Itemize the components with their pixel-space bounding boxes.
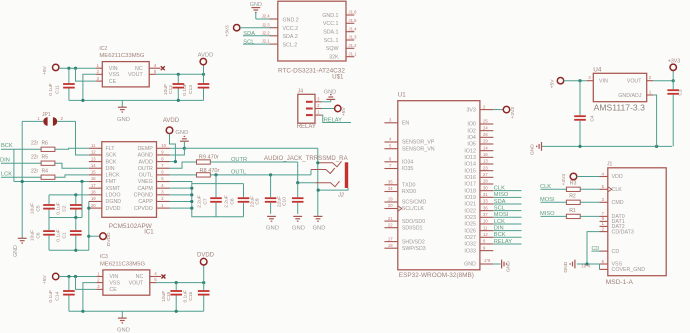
- svg-text:IO22: IO22: [464, 208, 476, 214]
- svg-text:14: 14: [483, 145, 488, 150]
- svg-text:NC: NC: [136, 274, 144, 280]
- svg-text:SENSOR_VN: SENSOR_VN: [402, 146, 435, 152]
- svg-text:LCK: LCK: [1, 172, 12, 178]
- svg-text:J2.3: J2.3: [262, 22, 271, 27]
- svg-text:30: 30: [483, 185, 488, 190]
- svg-text:18: 18: [91, 190, 96, 195]
- svg-text:19: 19: [388, 197, 393, 202]
- svg-text:SHD/SD2: SHD/SD2: [402, 239, 425, 245]
- svg-text:26: 26: [483, 132, 488, 137]
- svg-text:BCK: BCK: [106, 159, 117, 165]
- svg-text:C8: C8: [229, 198, 235, 205]
- svg-text:VNEG: VNEG: [138, 179, 153, 185]
- svg-text:AGND: AGND: [137, 153, 152, 159]
- svg-text:+3V3: +3V3: [510, 107, 516, 119]
- svg-text:+5V: +5V: [42, 65, 48, 75]
- svg-text:OUTL: OUTL: [139, 173, 153, 179]
- svg-text:SCL: SCL: [494, 206, 505, 212]
- svg-text:DVDD: DVDD: [106, 206, 121, 212]
- svg-text:CLK: CLK: [494, 186, 505, 192]
- svg-text:IO16: IO16: [464, 175, 476, 181]
- svg-text:27: 27: [483, 172, 488, 177]
- svg-text:19: 19: [91, 196, 96, 201]
- svg-text:GND: GND: [563, 261, 569, 272]
- svg-text:10uF: 10uF: [163, 84, 169, 95]
- svg-text:0.1uF: 0.1uF: [48, 290, 54, 303]
- svg-text:CD: CD: [612, 249, 620, 255]
- svg-text:AVDD: AVDD: [198, 53, 214, 59]
- svg-text:10uF: 10uF: [29, 203, 35, 214]
- svg-text:R1: R1: [569, 208, 576, 214]
- svg-text:GND: GND: [506, 261, 512, 272]
- svg-text:23: 23: [483, 165, 488, 170]
- svg-text:MOSI: MOSI: [494, 212, 509, 218]
- svg-text:J1.6: J1.6: [349, 10, 358, 15]
- svg-text:+3V3: +3V3: [561, 174, 567, 186]
- svg-text:NC: NC: [135, 66, 143, 72]
- svg-text:IO15: IO15: [464, 168, 476, 174]
- svg-text:IO25: IO25: [464, 222, 476, 228]
- svg-text:R3: R3: [570, 180, 577, 186]
- svg-text:RELAY: RELAY: [494, 239, 512, 245]
- svg-text:0.1uF: 0.1uF: [48, 83, 54, 96]
- svg-text:IO34: IO34: [402, 160, 414, 166]
- svg-text:GND: GND: [13, 245, 19, 257]
- svg-text:ESP32-WROOM-32(8MB): ESP32-WROOM-32(8MB): [399, 272, 474, 279]
- svg-text:CE: CE: [109, 79, 117, 85]
- svg-text:R4: R4: [42, 169, 49, 175]
- svg-text:GND: GND: [117, 327, 130, 333]
- svg-text:12: 12: [483, 232, 488, 237]
- svg-text:GND: GND: [530, 144, 536, 155]
- svg-text:IO4: IO4: [467, 135, 476, 141]
- svg-text:IO27: IO27: [464, 235, 476, 241]
- svg-text:2.2uF: 2.2uF: [223, 195, 229, 208]
- svg-text:C14: C14: [55, 292, 61, 301]
- svg-text:CPGND: CPGND: [134, 193, 153, 199]
- svg-text:VOUT: VOUT: [129, 280, 144, 286]
- svg-text:17: 17: [388, 236, 393, 241]
- svg-text:OUTR: OUTR: [231, 157, 247, 163]
- svg-text:CAPP: CAPP: [138, 199, 153, 205]
- svg-text:IC2: IC2: [99, 46, 107, 52]
- svg-text:10: 10: [161, 143, 166, 148]
- svg-text:XSMT: XSMT: [106, 186, 121, 192]
- svg-text:VOUT: VOUT: [128, 72, 143, 78]
- svg-text:TXD0: TXD0: [402, 183, 416, 189]
- svg-text:CE: CE: [109, 287, 117, 293]
- svg-text:33: 33: [483, 199, 488, 204]
- svg-text:SCL.2: SCL.2: [283, 43, 298, 49]
- svg-text:CPVDO: CPVDO: [134, 206, 153, 212]
- svg-text:C3: C3: [678, 89, 684, 96]
- svg-text:IO26: IO26: [464, 228, 476, 234]
- svg-text:J1: J1: [607, 162, 613, 168]
- svg-text:SCL/CLK: SCL/CLK: [402, 206, 425, 212]
- svg-text:J2.4: J2.4: [262, 14, 271, 19]
- svg-text:FMT: FMT: [106, 179, 118, 185]
- svg-text:J2: J2: [337, 193, 344, 199]
- svg-text:OUTR: OUTR: [138, 166, 153, 172]
- svg-text:DVDD: DVDD: [106, 232, 112, 246]
- svg-text:24: 24: [483, 125, 488, 130]
- svg-text:SDO/SD0: SDO/SD0: [402, 219, 425, 225]
- svg-text:VCC.2: VCC.2: [283, 26, 299, 32]
- svg-text:25: 25: [483, 119, 488, 124]
- svg-text:C15: C15: [166, 292, 172, 301]
- svg-text:IO19: IO19: [464, 195, 476, 201]
- svg-text:SENSOR_VP: SENSOR_VP: [402, 140, 435, 146]
- svg-text:R6: R6: [42, 141, 49, 147]
- svg-text:C11: C11: [55, 85, 61, 94]
- svg-text:GND: GND: [324, 89, 336, 95]
- svg-text:C6: C6: [36, 232, 42, 239]
- svg-text:R5: R5: [42, 155, 49, 161]
- svg-text:IO12: IO12: [464, 148, 476, 154]
- svg-text:1*9: 1*9: [484, 258, 491, 263]
- svg-text:28: 28: [483, 179, 488, 184]
- svg-text:SCL.1: SCL.1: [324, 38, 339, 44]
- svg-text:IO33: IO33: [464, 248, 476, 254]
- svg-text:U4: U4: [593, 67, 602, 74]
- svg-text:DIN: DIN: [106, 166, 115, 172]
- svg-text:SQW: SQW: [326, 46, 339, 52]
- svg-text:CAPM: CAPM: [137, 186, 152, 192]
- svg-text:OUTL: OUTL: [231, 170, 246, 176]
- svg-text:C5: C5: [36, 205, 42, 212]
- svg-text:16: 16: [483, 152, 488, 157]
- svg-text:IO14: IO14: [464, 162, 476, 168]
- svg-text:C16: C16: [188, 292, 194, 301]
- svg-text:U$1: U$1: [332, 73, 344, 80]
- svg-text:31: 31: [483, 192, 488, 197]
- svg-text:FLT: FLT: [106, 146, 116, 152]
- svg-text:20: 20: [91, 203, 96, 208]
- svg-text:GND: GND: [175, 130, 188, 136]
- svg-text:IO0: IO0: [467, 122, 476, 128]
- svg-text:11: 11: [91, 143, 96, 148]
- svg-text:RELAY: RELAY: [297, 124, 316, 130]
- svg-text:GND: GND: [117, 117, 130, 123]
- svg-text:SDA: SDA: [494, 199, 506, 205]
- svg-text:11: 11: [483, 225, 488, 230]
- svg-text:LCK: LCK: [494, 219, 505, 225]
- svg-text:CMD: CMD: [612, 200, 624, 206]
- svg-text:DVDD: DVDD: [197, 253, 215, 259]
- svg-text:U1: U1: [398, 91, 406, 98]
- svg-text:IO17: IO17: [464, 182, 476, 188]
- svg-text:GND: GND: [292, 226, 305, 232]
- svg-text:VSS: VSS: [109, 280, 120, 286]
- svg-text:10: 10: [483, 219, 488, 224]
- svg-text:GND: GND: [464, 262, 476, 268]
- svg-text:14: 14: [91, 163, 96, 168]
- svg-text:DEMP: DEMP: [137, 146, 153, 152]
- svg-text:GND.1: GND.1: [322, 13, 338, 19]
- svg-text:22uF: 22uF: [276, 196, 282, 207]
- svg-text:SDI/SD1: SDI/SD1: [402, 225, 423, 231]
- svg-text:IO23: IO23: [464, 215, 476, 221]
- svg-text:IC1: IC1: [144, 229, 154, 235]
- svg-text:35: 35: [388, 180, 393, 185]
- svg-text:RXD0: RXD0: [402, 189, 416, 195]
- svg-text:18: 18: [388, 243, 393, 248]
- svg-text:12: 12: [91, 150, 96, 155]
- svg-text:0.1uF: 0.1uF: [56, 229, 62, 242]
- svg-text:34: 34: [388, 186, 393, 191]
- svg-text:+3V3: +3V3: [225, 25, 231, 37]
- svg-text:2.2uF: 2.2uF: [196, 195, 202, 208]
- svg-text:SDA.1: SDA.1: [323, 30, 338, 36]
- svg-text:GND: GND: [313, 226, 326, 232]
- svg-text:IO18: IO18: [464, 188, 476, 194]
- svg-text:10uF: 10uF: [161, 291, 167, 302]
- svg-text:COVER_GND: COVER_GND: [612, 267, 646, 273]
- svg-text:AVDD: AVDD: [138, 159, 152, 165]
- svg-text:IO35: IO35: [402, 166, 414, 172]
- svg-text:J1.4: J1.4: [349, 26, 358, 31]
- svg-text:SDA.2: SDA.2: [283, 34, 298, 40]
- svg-text:+3V3: +3V3: [668, 58, 680, 64]
- svg-text:13: 13: [91, 156, 96, 161]
- svg-text:CLK: CLK: [612, 187, 623, 193]
- svg-text:CD/DAT3: CD/DAT3: [612, 229, 634, 235]
- svg-text:AMS1117-3.3: AMS1117-3.3: [594, 103, 645, 113]
- svg-text:J1.2: J1.2: [349, 43, 358, 48]
- svg-text:C7: C7: [202, 198, 208, 205]
- svg-text:IC3: IC3: [100, 254, 108, 260]
- svg-text:ME6211C33M5G: ME6211C33M5G: [99, 53, 144, 59]
- svg-text:J1.5: J1.5: [349, 18, 358, 23]
- svg-text:37: 37: [483, 212, 488, 217]
- svg-text:VSS: VSS: [109, 72, 120, 78]
- svg-text:BCK: BCK: [1, 143, 13, 149]
- svg-text:0.1uF: 0.1uF: [182, 83, 188, 96]
- svg-text:0.1uF: 0.1uF: [56, 202, 62, 215]
- svg-text:22r: 22r: [31, 155, 39, 161]
- svg-text:29: 29: [483, 139, 488, 144]
- svg-text:MISO: MISO: [494, 192, 509, 198]
- svg-text:J1.3: J1.3: [349, 35, 358, 40]
- svg-text:IO2: IO2: [467, 128, 476, 134]
- svg-text:EN: EN: [402, 121, 410, 127]
- svg-text:J2.1: J2.1: [262, 39, 271, 44]
- svg-text:15: 15: [91, 170, 96, 175]
- svg-text:GND.2: GND.2: [283, 17, 299, 23]
- svg-text:DGND: DGND: [106, 199, 122, 205]
- svg-text:20: 20: [388, 203, 393, 208]
- svg-text:VIN: VIN: [599, 79, 608, 85]
- svg-text:C13: C13: [188, 85, 194, 94]
- svg-text:13: 13: [483, 159, 488, 164]
- svg-text:16: 16: [91, 176, 96, 181]
- svg-text:22: 22: [388, 222, 393, 227]
- svg-text:LDOO: LDOO: [106, 193, 121, 199]
- svg-text:VCC.1: VCC.1: [323, 21, 339, 27]
- svg-text:R8 470r: R8 470r: [200, 168, 220, 174]
- svg-text:DIN: DIN: [494, 226, 504, 232]
- svg-text:36: 36: [483, 205, 488, 210]
- svg-text:J1.1: J1.1: [349, 51, 358, 56]
- svg-text:LRCK: LRCK: [106, 173, 121, 179]
- svg-text:10uF: 10uF: [29, 230, 35, 241]
- svg-text:SCK: SCK: [106, 153, 117, 159]
- svg-text:IO21: IO21: [464, 202, 476, 208]
- svg-text:+5V: +5V: [550, 79, 556, 89]
- svg-text:+5V: +5V: [341, 107, 347, 117]
- svg-text:3V3: 3V3: [466, 107, 475, 113]
- svg-text:0.1uF: 0.1uF: [182, 290, 188, 303]
- svg-text:22r: 22r: [31, 169, 39, 175]
- svg-text:ME6211C33M5G: ME6211C33M5G: [100, 262, 145, 268]
- svg-text:22r: 22r: [31, 141, 39, 147]
- svg-text:GND/ADJ: GND/ADJ: [618, 93, 642, 99]
- svg-text:IO13: IO13: [464, 155, 476, 161]
- svg-text:IO5: IO5: [467, 142, 476, 148]
- svg-text:C4: C4: [590, 115, 596, 122]
- svg-text:VOUT: VOUT: [627, 79, 642, 85]
- svg-text:GND: GND: [266, 226, 279, 232]
- svg-text:SCS/CMD: SCS/CMD: [402, 200, 427, 206]
- svg-text:C9: C9: [254, 198, 260, 205]
- svg-text:C12: C12: [168, 85, 174, 94]
- svg-text:+5V: +5V: [42, 275, 48, 285]
- svg-text:SWP/SD3: SWP/SD3: [402, 246, 426, 252]
- svg-text:C10: C10: [282, 197, 288, 206]
- svg-text:VIN: VIN: [109, 66, 118, 72]
- svg-text:21: 21: [388, 216, 393, 221]
- svg-text:IO32: IO32: [464, 242, 476, 248]
- svg-text:C1: C1: [62, 232, 68, 239]
- svg-text:32K: 32K: [329, 55, 339, 61]
- svg-text:10*4: 10*4: [581, 263, 590, 268]
- svg-text:J2.2: J2.2: [262, 30, 271, 35]
- svg-text:RELAY: RELAY: [324, 117, 342, 123]
- svg-text:AUDIO_JACK_TRRSSMD_RA: AUDIO_JACK_TRRSSMD_RA: [264, 155, 349, 162]
- svg-text:R2: R2: [569, 194, 576, 200]
- svg-text:J4: J4: [298, 89, 304, 95]
- svg-text:MSD-1-A: MSD-1-A: [606, 279, 634, 286]
- svg-text:BCK: BCK: [494, 232, 506, 238]
- svg-text:17: 17: [91, 183, 96, 188]
- svg-text:AVDD: AVDD: [163, 118, 180, 124]
- svg-text:VIN: VIN: [109, 274, 118, 280]
- svg-text:VDD: VDD: [612, 174, 623, 180]
- svg-text:C2: C2: [62, 205, 68, 212]
- svg-text:R9 470r: R9 470r: [199, 154, 219, 160]
